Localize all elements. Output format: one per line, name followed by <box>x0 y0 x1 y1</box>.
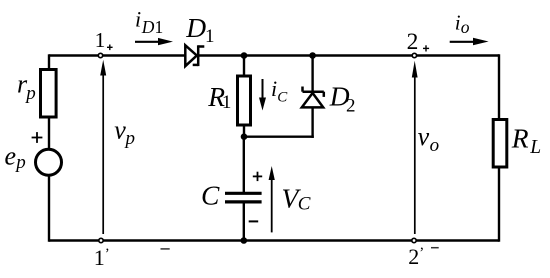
wire top right segment from D1 cathode to right corner <box>198 54 499 56</box>
label r_p <box>17 70 36 104</box>
svg-text:p: p <box>24 83 36 104</box>
junction dot R1 top <box>241 52 248 59</box>
wire right upper (top wire to R_L) <box>498 54 500 120</box>
plus sign node 1 <box>107 45 113 51</box>
svg-text:2: 2 <box>407 29 419 55</box>
label e_p <box>5 142 26 173</box>
voltage source e_p <box>36 149 62 175</box>
wire R1 bottom branch <box>243 125 245 137</box>
label v_p <box>114 116 135 149</box>
wire junction to capacitor <box>243 137 245 193</box>
label C <box>201 180 220 211</box>
resistor R1 <box>238 76 251 125</box>
wire R1 top branch <box>243 56 245 77</box>
svg-text:v: v <box>114 116 126 145</box>
svg-text:i: i <box>135 7 141 32</box>
arrow V_C <box>269 166 275 232</box>
node 2' <box>412 238 416 242</box>
label i_o <box>455 11 470 37</box>
svg-text:2: 2 <box>346 95 356 116</box>
minus sign bottom left <box>161 248 170 250</box>
svg-text:C: C <box>298 194 311 215</box>
svg-text:C: C <box>201 180 220 211</box>
svg-text:1: 1 <box>95 28 106 52</box>
svg-text:D1: D1 <box>141 17 163 37</box>
junction dot capacitor bottom <box>241 237 248 244</box>
node 1 <box>98 53 102 57</box>
wire right lower (R_L to bottom wire) <box>498 167 500 242</box>
svg-text:o: o <box>430 135 440 156</box>
diode D1 (Schottky) <box>185 45 204 66</box>
junction dot R1 bottom <box>241 133 248 140</box>
label i_C <box>271 76 288 106</box>
node 1' <box>99 238 103 242</box>
svg-text:L: L <box>529 137 541 158</box>
plus sign of e_p <box>32 132 43 143</box>
svg-text:D: D <box>185 12 206 43</box>
arrow v_o <box>412 61 418 234</box>
wire bottom <box>49 239 499 241</box>
wire top from node 1 area, left segment to diode D1 <box>49 54 186 56</box>
wire left lower (e_p to bottom wire) <box>48 176 50 242</box>
label R_L <box>511 123 541 159</box>
svg-text:1: 1 <box>205 26 215 47</box>
label node 1' <box>94 245 110 270</box>
arrow i_D1 <box>135 38 173 45</box>
minus sign capacitor <box>249 220 259 222</box>
resistor R_L <box>493 120 507 168</box>
minus sign bottom right <box>431 247 439 249</box>
svg-text:C: C <box>277 90 288 106</box>
label D2 <box>329 80 356 116</box>
svg-text:v: v <box>418 122 430 151</box>
label D1 <box>185 12 214 47</box>
wire left upper (top wire to r_p) <box>48 54 50 70</box>
label v_o <box>418 122 440 156</box>
node 2 <box>412 53 416 57</box>
svg-text:p: p <box>14 152 26 173</box>
wire D2 bottom branch <box>311 107 313 137</box>
label node 2' <box>408 244 424 269</box>
plus sign node 2 <box>423 45 429 51</box>
wire horizontal R1/C to D2 <box>244 135 314 137</box>
arrow i_C <box>259 79 266 111</box>
diode D2 (Schottky) <box>302 87 324 108</box>
svg-text:o: o <box>461 17 470 37</box>
arrow i_o <box>450 38 489 45</box>
arrow v_p <box>100 60 106 234</box>
label node 1 <box>95 28 106 52</box>
label node 2 <box>407 29 419 55</box>
capacitor C <box>225 193 262 202</box>
svg-text:p: p <box>124 128 136 149</box>
plus sign capacitor <box>253 172 262 181</box>
svg-text:1: 1 <box>222 92 232 113</box>
label i_D1 <box>135 7 163 38</box>
svg-text:e: e <box>5 142 17 171</box>
label R1 <box>207 81 231 113</box>
wire D2 top branch <box>311 56 313 92</box>
wire left between r_p and e_p <box>48 117 50 150</box>
wire capacitor to bottom <box>243 202 245 241</box>
label V_C <box>282 182 311 214</box>
svg-text:R: R <box>511 123 529 154</box>
junction dot D2 top <box>309 52 316 59</box>
resistor r_p <box>41 70 57 118</box>
